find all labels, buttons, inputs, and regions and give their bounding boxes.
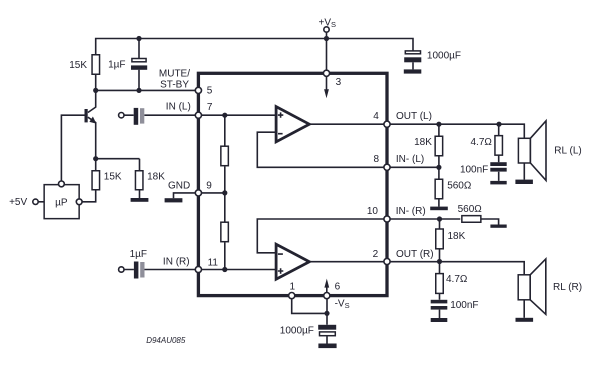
svg-text:7: 7 — [207, 102, 213, 113]
svg-text:3: 3 — [336, 77, 342, 88]
svg-text:15K: 15K — [69, 60, 87, 71]
svg-text:OUT (R): OUT (R) — [396, 249, 434, 260]
svg-text:6: 6 — [335, 282, 341, 293]
svg-text:GND: GND — [168, 180, 190, 191]
svg-text:4.7Ω: 4.7Ω — [446, 274, 468, 285]
svg-text:IN (R): IN (R) — [163, 256, 190, 267]
svg-text:4: 4 — [373, 111, 379, 122]
svg-text:OUT (L): OUT (L) — [396, 111, 432, 122]
svg-text:100nF: 100nF — [450, 300, 478, 311]
svg-text:-VS: -VS — [335, 299, 350, 311]
svg-text:4.7Ω: 4.7Ω — [471, 137, 493, 148]
svg-text:MUTE/: MUTE/ — [159, 68, 190, 79]
svg-text:+VS: +VS — [319, 17, 337, 29]
svg-text:1000µF: 1000µF — [427, 51, 461, 62]
svg-text:1µF: 1µF — [130, 249, 147, 260]
svg-text:18K: 18K — [448, 231, 466, 242]
svg-text:RL (R): RL (R) — [553, 282, 582, 293]
svg-text:5: 5 — [207, 85, 213, 96]
svg-text:15K: 15K — [104, 171, 122, 182]
svg-text:1µF: 1µF — [108, 60, 125, 71]
svg-text:18K: 18K — [414, 137, 432, 148]
svg-text:100nF: 100nF — [460, 165, 488, 176]
svg-text:2: 2 — [373, 249, 379, 260]
svg-text:RL (L): RL (L) — [554, 146, 581, 157]
svg-text:560Ω: 560Ω — [458, 204, 483, 215]
svg-text:IN- (L): IN- (L) — [396, 154, 424, 165]
svg-text:11: 11 — [208, 257, 219, 268]
svg-text:560Ω: 560Ω — [447, 180, 472, 191]
svg-text:D94AU085: D94AU085 — [146, 336, 186, 345]
svg-text:+5V: +5V — [9, 197, 27, 208]
svg-text:IN (L): IN (L) — [166, 102, 191, 113]
svg-text:µP: µP — [55, 198, 68, 209]
svg-text:IN- (R): IN- (R) — [396, 206, 426, 217]
svg-text:9: 9 — [206, 181, 212, 192]
svg-text:18K: 18K — [147, 171, 165, 182]
svg-text:1: 1 — [290, 282, 296, 293]
svg-text:ST-BY: ST-BY — [160, 80, 189, 91]
svg-text:8: 8 — [373, 154, 379, 165]
svg-text:10: 10 — [367, 206, 379, 217]
svg-text:1000µF: 1000µF — [280, 325, 314, 336]
